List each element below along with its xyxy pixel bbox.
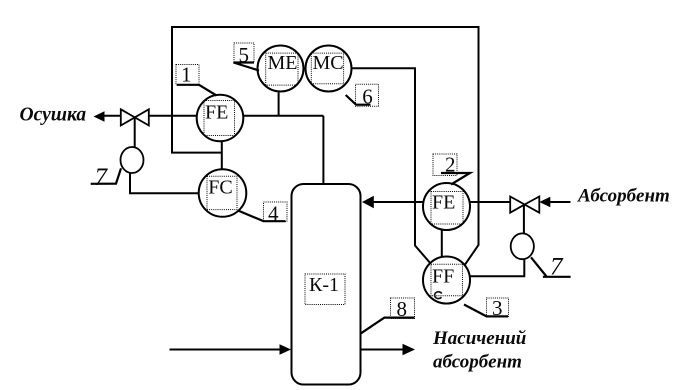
- svg-text:3: 3: [492, 296, 503, 320]
- svg-text:FF: FF: [432, 266, 454, 288]
- svg-text:Абсорбент: Абсорбент: [577, 186, 670, 207]
- svg-text:ME: ME: [268, 52, 298, 74]
- svg-text:4: 4: [268, 202, 279, 226]
- svg-text:FC: FC: [208, 176, 232, 198]
- svg-text:7: 7: [95, 164, 109, 191]
- svg-text:MC: MC: [313, 52, 344, 74]
- svg-text:Осушка: Осушка: [20, 105, 87, 126]
- svg-text:абсорбент: абсорбент: [433, 352, 522, 373]
- svg-text:6: 6: [362, 84, 373, 108]
- svg-text:2: 2: [445, 153, 456, 177]
- svg-text:FE: FE: [432, 192, 455, 214]
- svg-text:FE: FE: [205, 102, 228, 124]
- svg-text:Насичений: Насичений: [432, 328, 526, 349]
- svg-text:7: 7: [550, 253, 564, 280]
- svg-text:5: 5: [239, 43, 250, 67]
- svg-text:1: 1: [181, 62, 192, 86]
- svg-text:8: 8: [397, 297, 408, 321]
- svg-text:К-1: К-1: [309, 274, 339, 296]
